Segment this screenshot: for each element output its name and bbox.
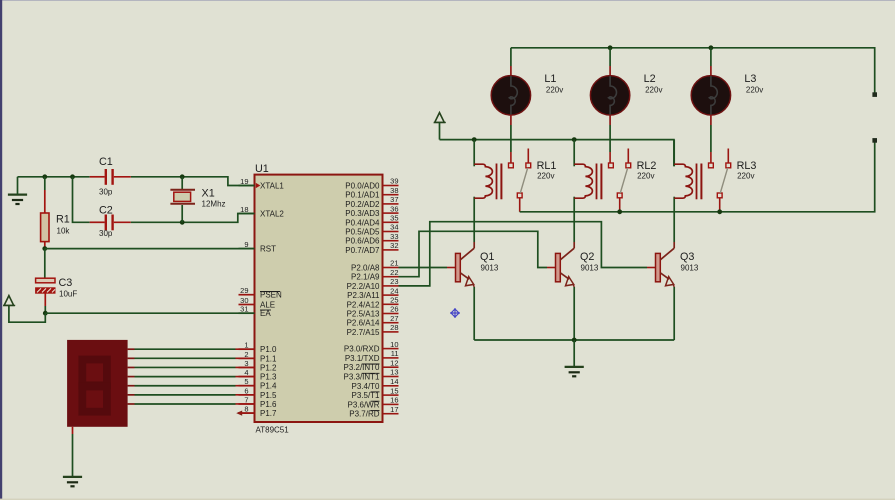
svg-text:P3.5/T1: P3.5/T1 [351, 391, 380, 400]
svg-text:220v: 220v [537, 172, 554, 181]
wire XTAL2 net [131, 214, 255, 223]
svg-text:R1: R1 [56, 214, 70, 226]
svg-text:220v: 220v [637, 172, 654, 181]
wire emitter common rail [474, 339, 674, 341]
svg-text:P0.6/AD6: P0.6/AD6 [345, 237, 380, 246]
pin 6 P1.5 [239, 386, 278, 400]
wire P1.7 stub [236, 411, 254, 416]
pin 39 P0.0/AD0 [345, 177, 398, 191]
svg-text:12: 12 [390, 358, 398, 367]
op-amp U1 AT89C51 body [255, 163, 383, 434]
pin 17 P3.7/RD [349, 405, 398, 419]
lamp L2 [590, 48, 662, 163]
node X1 bottom junction [180, 220, 185, 225]
svg-text:XTAL1: XTAL1 [260, 182, 284, 191]
svg-text:P2.0/A8: P2.0/A8 [351, 264, 380, 273]
capacitor C2 [90, 205, 131, 239]
svg-text:30p: 30p [99, 229, 113, 238]
pin 36 P0.3/AD3 [345, 204, 398, 218]
svg-text:PSEN: PSEN [260, 291, 282, 300]
svg-text:P3.3/INT1: P3.3/INT1 [343, 373, 380, 382]
svg-text:22: 22 [390, 268, 398, 277]
svg-text:P0.0/AD0: P0.0/AD0 [345, 182, 380, 191]
pin 14 P3.4/T0 [351, 377, 398, 391]
relay RL1 [474, 140, 556, 212]
svg-text:38: 38 [390, 186, 398, 195]
pin 12 P3.2/INT0 [343, 358, 398, 372]
svg-text:220v: 220v [746, 86, 763, 95]
svg-text:19: 19 [240, 177, 248, 186]
pin 3 P1.2 [239, 359, 278, 373]
svg-text:RST: RST [260, 245, 276, 254]
svg-text:P2.6/A14: P2.6/A14 [347, 319, 380, 328]
svg-text:1: 1 [244, 341, 248, 350]
svg-text:P3.0/RXD: P3.0/RXD [344, 345, 380, 354]
node coil RL2 junction [572, 137, 577, 142]
pin 7 P1.6 [239, 395, 278, 409]
svg-text:P1.2: P1.2 [260, 363, 277, 372]
7-segment display [67, 340, 128, 427]
pin 22 P2.1/A9 [351, 268, 398, 282]
svg-text:15: 15 [390, 386, 398, 395]
svg-text:9013: 9013 [581, 264, 599, 273]
lamp L1 [491, 48, 563, 163]
svg-text:31: 31 [240, 305, 248, 314]
wire segment display to P1.4 [128, 385, 255, 387]
svg-text:P3.7/RD: P3.7/RD [349, 410, 379, 419]
svg-text:XTAL2: XTAL2 [260, 210, 284, 219]
svg-text:37: 37 [390, 195, 398, 204]
svg-text:23: 23 [390, 277, 398, 286]
svg-text:AT89C51: AT89C51 [256, 425, 290, 434]
node RL2 output junction [617, 209, 622, 214]
svg-text:Q1: Q1 [480, 251, 494, 263]
svg-text:8: 8 [244, 405, 248, 414]
lamp L3 [691, 48, 763, 163]
svg-text:16: 16 [390, 396, 398, 405]
svg-text:10: 10 [390, 340, 398, 349]
node emitter rail junction [572, 338, 577, 343]
wire collector up [673, 197, 675, 242]
node R1 top junction [42, 174, 47, 179]
svg-text:14: 14 [390, 377, 398, 386]
wire segment display to P1.2 [128, 366, 255, 368]
wire [0, 0, 895, 1]
wire segment display to P1.1 [128, 357, 255, 359]
wire P2.1 to Q2 base [399, 231, 556, 276]
relay RL3 [674, 140, 756, 212]
pin 25 P2.4/A12 [347, 296, 399, 310]
svg-text:24: 24 [390, 286, 398, 295]
crystal X1 12Mhz [170, 177, 225, 223]
svg-text:L2: L2 [644, 73, 656, 85]
pin 32 P0.7/AD7 [345, 241, 398, 255]
node RL3 output junction [717, 209, 722, 214]
svg-text:7: 7 [244, 395, 248, 404]
pin 18 XTAL2 [239, 205, 285, 219]
svg-text:P0.2/AD2: P0.2/AD2 [345, 200, 380, 209]
pin 4 P1.3 [239, 368, 278, 382]
svg-text:35: 35 [390, 214, 398, 223]
wire lamp supply rail [511, 48, 875, 95]
svg-text:Q2: Q2 [580, 251, 594, 263]
pin 8 P1.7 [239, 405, 278, 419]
wire [0, 0, 2, 500]
pin 5 P1.4 [239, 377, 278, 391]
svg-text:P1.0: P1.0 [260, 345, 277, 354]
svg-text:11: 11 [391, 349, 399, 358]
svg-text:33: 33 [390, 232, 398, 241]
svg-text:26: 26 [390, 305, 398, 314]
pin 9 RST [239, 240, 277, 254]
wire Q3 emitter down [673, 287, 675, 340]
svg-text:6: 6 [244, 386, 248, 395]
svg-text:P0.1/AD1: P0.1/AD1 [345, 191, 380, 200]
svg-text:P0.3/AD3: P0.3/AD3 [345, 209, 380, 218]
resistor R1 10k [41, 177, 71, 249]
svg-text:L3: L3 [744, 73, 756, 85]
pin 30 ALE [239, 296, 276, 310]
svg-text:RL2: RL2 [637, 160, 657, 172]
svg-text:27: 27 [390, 314, 398, 323]
wire collector up [473, 197, 475, 242]
svg-text:9013: 9013 [481, 264, 499, 273]
transistor Q2 [556, 242, 599, 287]
pin 16 P3.6/WR [347, 396, 398, 410]
pin 2 P1.1 [239, 350, 278, 364]
svg-text:P0.5/AD5: P0.5/AD5 [345, 228, 380, 237]
svg-text:P3.1/TXD: P3.1/TXD [345, 354, 380, 363]
svg-text:32: 32 [390, 241, 398, 250]
wire EA net [45, 312, 254, 314]
svg-text:9013: 9013 [681, 264, 699, 273]
transistor Q1 [456, 242, 499, 287]
svg-text:10k: 10k [57, 227, 71, 236]
svg-text:13: 13 [390, 368, 398, 377]
svg-text:10uF: 10uF [59, 290, 77, 299]
svg-text:P2.7/A15: P2.7/A15 [347, 328, 380, 337]
svg-text:P1.3: P1.3 [260, 373, 277, 382]
pin 21 P2.0/A8 [351, 259, 398, 273]
node terminal lower [872, 138, 877, 143]
pin 10 P3.0/RXD [344, 340, 399, 354]
power VCC arrow right [434, 113, 446, 140]
svg-text:3: 3 [244, 359, 248, 368]
pin 1 P1.0 [239, 341, 278, 355]
svg-text:P3.4/T0: P3.4/T0 [351, 382, 380, 391]
svg-text:P1.1: P1.1 [260, 354, 277, 363]
svg-text:25: 25 [390, 296, 398, 305]
wire segment display to P1.6 [128, 403, 255, 405]
wire segment display to P1.3 [128, 376, 255, 378]
svg-text:5: 5 [244, 377, 248, 386]
svg-text:18: 18 [240, 205, 248, 214]
ground display [63, 477, 82, 486]
pin 34 P0.5/AD5 [345, 223, 398, 237]
svg-text:P3.6/WR: P3.6/WR [347, 400, 379, 409]
transistor Q3 [656, 242, 699, 287]
svg-text:220v: 220v [645, 86, 662, 95]
wire R1 to C3 [44, 249, 46, 278]
svg-text:P1.6: P1.6 [260, 400, 277, 409]
relay RL2 [574, 140, 656, 212]
svg-text:12Mhz: 12Mhz [202, 200, 226, 209]
svg-text:P2.1/A9: P2.1/A9 [351, 273, 380, 282]
svg-text:36: 36 [390, 204, 398, 213]
pin 13 P3.3/INT1 [343, 368, 398, 382]
pin 11 P3.1/TXD [345, 349, 399, 363]
svg-text:RL3: RL3 [737, 160, 757, 172]
wire VCC rail [440, 140, 674, 167]
capacitor C1 [90, 156, 131, 197]
wire P2.0 to Q1 base [399, 267, 456, 269]
wire RST net [45, 248, 255, 250]
svg-text:9: 9 [244, 240, 248, 249]
wire Q1 emitter down [473, 287, 475, 340]
svg-text:220v: 220v [546, 86, 563, 95]
pin 33 P0.6/AD6 [345, 232, 398, 246]
svg-text:Q3: Q3 [680, 251, 694, 263]
pin 37 P0.2/AD2 [345, 195, 398, 209]
ground transistors [565, 367, 584, 376]
pin 27 P2.6/A14 [347, 314, 399, 328]
pin 28 P2.7/A15 [347, 323, 399, 337]
node X1 top junction [180, 174, 185, 179]
node origin marker [450, 308, 460, 318]
svg-text:21: 21 [390, 259, 398, 268]
wire C2 branch vertical [73, 177, 90, 223]
svg-text:34: 34 [390, 223, 398, 232]
svg-text:P1.5: P1.5 [260, 391, 277, 400]
wire segment display to P1.0 [128, 348, 255, 350]
svg-text:P2.5/A13: P2.5/A13 [347, 310, 380, 319]
wire Q2 emitter down [573, 287, 575, 340]
svg-text:C1: C1 [99, 156, 113, 168]
pin 31 EA [239, 305, 272, 319]
node RST junction [42, 246, 47, 251]
node L3 rail junction [709, 45, 714, 50]
svg-text:P2.4/A12: P2.4/A12 [347, 300, 380, 309]
svg-text:P3.2/INT0: P3.2/INT0 [343, 363, 380, 372]
pin 38 P0.1/AD1 [345, 186, 398, 200]
svg-text:29: 29 [240, 286, 248, 295]
svg-text:P1.7: P1.7 [260, 409, 277, 418]
pin 24 P2.3/A11 [347, 286, 398, 300]
wire display cathode [72, 427, 74, 477]
svg-text:P0.7/AD7: P0.7/AD7 [345, 246, 380, 255]
svg-text:4: 4 [244, 368, 248, 377]
wire P2.2 to Q3 base [399, 222, 656, 286]
wire relay output rail [520, 140, 875, 211]
node L2 rail junction [608, 45, 613, 50]
pin 15 P3.5/T1 [351, 386, 398, 400]
svg-text:EA: EA [260, 309, 271, 318]
node coil RL1 junction [472, 137, 477, 142]
svg-text:P2.2/A10: P2.2/A10 [347, 282, 380, 291]
svg-text:220v: 220v [737, 172, 754, 181]
svg-text:X1: X1 [202, 188, 215, 200]
wire [0, 499, 895, 500]
pin 23 P2.2/A10 [347, 277, 399, 291]
power VCC arrow left [3, 296, 45, 323]
node EA junction [43, 311, 48, 316]
svg-text:30p: 30p [99, 188, 113, 197]
ground [8, 177, 27, 204]
svg-text:39: 39 [390, 177, 398, 186]
svg-text:17: 17 [390, 405, 398, 414]
svg-text:P2.3/A11: P2.3/A11 [347, 291, 380, 300]
svg-text:28: 28 [390, 323, 398, 332]
wire rail to ground [573, 340, 575, 367]
pin 29 PSEN [239, 286, 283, 300]
svg-text:ALE: ALE [260, 301, 275, 310]
svg-text:U1: U1 [255, 163, 269, 175]
svg-text:2: 2 [244, 350, 248, 359]
node C2 branch junction [70, 174, 75, 179]
wire XTAL1 net top [18, 177, 255, 186]
pin 26 P2.5/A13 [347, 305, 399, 319]
svg-text:30: 30 [240, 296, 248, 305]
pin 35 P0.4/AD4 [345, 214, 398, 228]
svg-text:C2: C2 [99, 205, 113, 217]
capacitor C3 10uF [36, 277, 78, 313]
node terminal upper [872, 92, 877, 97]
svg-text:C3: C3 [59, 277, 73, 289]
svg-text:P1.4: P1.4 [260, 382, 277, 391]
pin 19 XTAL1 [239, 177, 285, 191]
wire collector up [573, 197, 575, 242]
svg-text:L1: L1 [544, 73, 556, 85]
wire segment display to P1.5 [128, 394, 255, 396]
svg-text:RL1: RL1 [537, 160, 557, 172]
svg-text:P0.4/AD4: P0.4/AD4 [345, 218, 380, 227]
